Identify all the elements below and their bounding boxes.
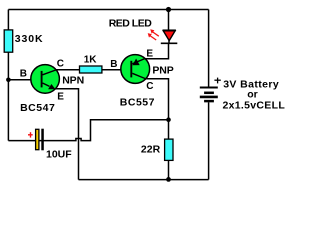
svg-text:C: C bbox=[146, 81, 153, 92]
svg-text:2x1.5vCELL: 2x1.5vCELL bbox=[223, 100, 286, 112]
svg-text:E: E bbox=[146, 49, 153, 60]
svg-text:C: C bbox=[57, 58, 64, 69]
svg-text:1K: 1K bbox=[84, 54, 98, 65]
svg-text:10UF: 10UF bbox=[46, 149, 72, 161]
svg-text:E: E bbox=[57, 91, 64, 102]
svg-text:B: B bbox=[20, 68, 27, 79]
svg-text:BC557: BC557 bbox=[120, 96, 155, 108]
svg-text:RED LED: RED LED bbox=[109, 18, 153, 30]
svg-text:22R: 22R bbox=[141, 143, 161, 155]
svg-text:PNP: PNP bbox=[152, 65, 173, 77]
svg-text:BC547: BC547 bbox=[20, 102, 55, 114]
svg-text:330K: 330K bbox=[15, 33, 44, 45]
svg-text:NPN: NPN bbox=[62, 75, 84, 87]
svg-text:B: B bbox=[110, 59, 117, 70]
